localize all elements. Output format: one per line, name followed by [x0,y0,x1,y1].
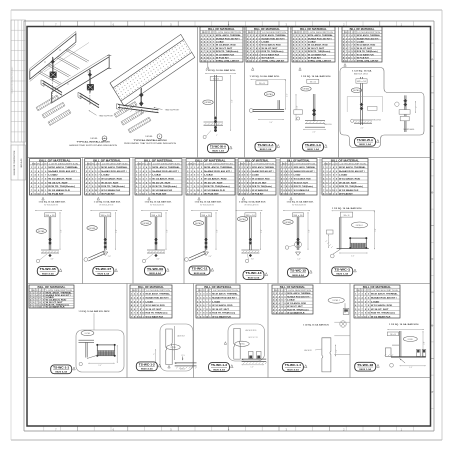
svg-text:McMAX ROD 400 KIT /: McMAX ROD 400 KIT / [262,37,286,40]
svg-text:W 1/2 ANCH. ROD: W 1/2 ANCH. ROD [212,304,233,307]
title bubble band2 cell1 [37,267,62,276]
isometric A trapeze channel 2 [78,92,99,107]
svg-text:2'-0″: 2'-0″ [361,127,364,129]
svg-text:LOAD: LOAD [48,174,58,177]
svg-text:1 1/2 SQ. 16 GA. BAR SCH.: 1 1/2 SQ. 16 GA. BAR SCH. [303,323,330,326]
svg-text:W 36 UT. NUT: W 36 UT. NUT [212,309,229,311]
svg-text:W 36 UT. NUT: W 36 UT. NUT [204,182,223,184]
svg-text:W FCB KIT: W FCB KIT [48,194,64,196]
isometric A ladder rungs [38,43,89,85]
title bubble band2 wide cell [332,267,357,276]
title bubble band3 cell1 [51,365,76,374]
svg-text:W 1/2 WASH FLR: W 1/2 WASH FLR [262,53,280,56]
svg-text:McMAX ROD 400 KIT /: McMAX ROD 400 KIT / [212,297,237,300]
svg-text:1 1/2 SQ. 16 GA. BAR SCH.: 1 1/2 SQ. 16 GA. BAR SCH. [206,69,237,72]
svg-text:DETAIL: DETAIL [285,221,292,224]
svg-text:McMAX ROD 400 KIT /: McMAX ROD 400 KIT / [308,37,332,40]
svg-text:TS-WC-1-4: TS-WC-1-4 [285,363,302,367]
zone scale top [44,21,414,27]
svg-text:W FCB KIT: W FCB KIT [357,57,370,59]
svg-text:McMAX ROD 400 KIT /: McMAX ROD 400 KIT / [287,296,310,299]
title bubble band2 cell4 [189,266,214,275]
svg-text:ISSUED FOR CONSTRUCTION REV 2: ISSUED FOR CONSTRUCTION REV 2 [12,67,14,94]
detail sketch band2 cell3 [141,197,172,262]
svg-text:DETAIL: DETAIL [90,137,98,140]
svg-text:RCB TR. THK(Retain): RCB TR. THK(Retain) [101,185,125,188]
svg-text:MCM. ANCH. THERMAL: MCM. ANCH. THERMAL [101,166,128,169]
svg-text:W FCB KIT: W FCB KIT [339,194,354,196]
svg-text:W 36 UT. NUT: W 36 UT. NUT [146,309,163,311]
svg-text:McMAX ROD 400 KIT /: McMAX ROD 400 KIT / [252,170,274,173]
svg-text:W FCB KIT: W FCB KIT [262,57,275,59]
svg-text:WELDING: WELDING [372,120,382,122]
detail sketch band3 cell1 [76,310,124,372]
svg-text:3'-6″: 3'-6″ [251,259,255,261]
svg-text:W 1/2 WASH FLR: W 1/2 WASH FLR [48,189,70,192]
svg-text:W 36 UT. NUT: W 36 UT. NUT [101,182,119,184]
svg-text:W 1/2 ANCH. ROD: W 1/2 ANCH. ROD [216,44,236,47]
svg-text:W 1/2 WASH FLR: W 1/2 WASH FLR [339,189,359,192]
svg-text:MCM. ANCH. THERMAL: MCM. ANCH. THERMAL [146,293,171,296]
svg-text:W 1/2 ANCH. ROD: W 1/2 ANCH. ROD [262,44,282,47]
svg-text:DETAIL: DETAIL [239,218,246,221]
svg-text:W 36 UT. NUT: W 36 UT. NUT [262,48,279,50]
svg-text:W6 x 16: W6 x 16 [259,83,265,85]
svg-text:4'-0″: 4'-0″ [297,105,299,109]
svg-text:W FCB KIT: W FCB KIT [308,57,322,59]
svg-text:LOAD: LOAD [252,174,259,177]
svg-text:MCM. ANCH. THERMAL: MCM. ANCH. THERMAL [287,292,311,295]
band2 cell divider 5 [277,158,279,284]
title bubble band1 cell1 [208,144,233,153]
svg-text:MCM. ANCH. THERMAL: MCM. ANCH. THERMAL [294,166,316,169]
svg-text:MCM. ANCH. THERMAL: MCM. ANCH. THERMAL [48,166,78,169]
svg-text:W 1/2 WASH FLR: W 1/2 WASH FLR [146,316,164,319]
svg-text:8620 1-04: 8620 1-04 [359,368,371,371]
svg-text:W 1/2 ANCH. ROD: W 1/2 ANCH. ROD [252,178,270,181]
svg-text:W 1/2 WASH FLR: W 1/2 WASH FLR [357,53,374,56]
svg-text:DETAIL: DETAIL [303,88,310,91]
svg-text:1 1/2 SQ. 16 GA. BAR SCH.: 1 1/2 SQ. 16 GA. BAR SCH. [145,201,173,204]
svg-text:8620 1-04: 8620 1-04 [212,150,224,153]
svg-text:1 1/2 SQ. 16 GA. BAR SCH.: 1 1/2 SQ. 16 GA. BAR SCH. [195,201,223,204]
svg-text:1 1/2 SQ. 16 GA. BAR SCH.: 1 1/2 SQ. 16 GA. BAR SCH. [287,201,315,204]
svg-text:2'-0″: 2'-0″ [336,349,338,352]
svg-text:McMAX ROD 400 KIT /: McMAX ROD 400 KIT / [204,170,232,173]
svg-text:W 36 UT. NUT: W 36 UT. NUT [371,309,389,311]
svg-text:5'-0″: 5'-0″ [167,229,169,233]
svg-text:MK PC QTY LGTH DESCRIPTION: MK PC QTY LGTH DESCRIPTION [202,32,242,34]
BOM table band2-6 [280,159,317,196]
svg-text:TS-WC-05: TS-WC-05 [40,267,57,271]
svg-text:1 1/2 SQ. 16 GA. BAR SCH.: 1 1/2 SQ. 16 GA. BAR SCH. [239,201,267,204]
svg-text:3'-6″: 3'-6″ [50,259,54,261]
detail sketch band2 cell4 [185,197,222,261]
svg-text:DETAIL: DETAIL [38,230,45,233]
detail sketch band1 cell4 [340,64,424,148]
svg-text:DETAIL: DETAIL [266,93,273,96]
svg-text:DETAIL: DETAIL [195,222,202,225]
svg-text:8620 1-04: 8620 1-04 [336,273,348,276]
svg-text:RCB TR. THK(Retain): RCB TR. THK(Retain) [252,185,272,188]
svg-text:1 1/2 SQ. 16 GA. BAR SCH.: 1 1/2 SQ. 16 GA. BAR SCH. [332,207,363,210]
svg-text:McMAX ROD 400 KIT /: McMAX ROD 400 KIT / [146,297,170,300]
svg-text:W 1/2 ANCH. ROD: W 1/2 ANCH. ROD [146,304,166,307]
detail sketch band3 cell4 [303,297,350,372]
svg-text:W6 x 16: W6 x 16 [310,81,316,83]
svg-text:TS-WC-15: TS-WC-15 [290,269,307,273]
svg-text:W FCB KIT: W FCB KIT [152,194,167,196]
title bubble band2 cell2 [93,267,118,276]
svg-text:ANCHOR: ANCHOR [304,349,312,352]
svg-text:TS-WC-09: TS-WC-09 [147,267,164,271]
isometric A ladder tray rails [30,31,112,103]
BOM table band2-1 [30,159,81,196]
svg-text:McMAX ROD 400 KIT /: McMAX ROD 400 KIT / [152,170,179,173]
svg-text:McMAX ROD 400 KIT /: McMAX ROD 400 KIT / [371,297,397,300]
svg-text:W 36 UT. NUT: W 36 UT. NUT [252,182,267,184]
svg-text:8620 4-04: 8620 4-04 [248,276,260,279]
isometric B hanger rod [139,88,143,116]
svg-text:RCB TR. THK(Retain): RCB TR. THK(Retain) [287,308,309,311]
svg-text:8620 1-04: 8620 1-04 [307,148,319,151]
svg-text:MK PC QTY LGTH DESCRIPTION: MK PC QTY LGTH DESCRIPTION [137,164,180,166]
title bubble band2 cell3 [145,266,170,275]
svg-text:W 36 UT. NUT: W 36 UT. NUT [357,48,373,50]
svg-text:RCB TR. THK(Retain): RCB TR. THK(Retain) [339,185,363,188]
svg-text:MCM. ANCH. THERMAL: MCM. ANCH. THERMAL [371,293,398,296]
svg-text:DETAIL: DETAIL [145,135,153,138]
band2 cell divider 6 [319,158,321,284]
svg-text:RCB TR. THK(Retain): RCB TR. THK(Retain) [152,185,177,188]
svg-text:McMAX ROD 400 KIT /: McMAX ROD 400 KIT / [339,170,365,173]
BOM table band2-3 [135,159,182,196]
svg-text:8620 4-04: 8620 4-04 [287,368,299,371]
detail sketch band2 wide cell [325,207,377,258]
band2 cell divider 4 [235,158,237,284]
svg-text:W6 x 16: W6 x 16 [357,81,366,83]
svg-text:TS-WC-4-A: TS-WC-4-A [305,143,321,147]
svg-text:TS-WC-18: TS-WC-18 [357,363,374,367]
svg-text:5'-0″: 5'-0″ [217,229,219,233]
svg-text:TS-WC-1: TS-WC-1 [334,268,351,272]
svg-text:W 36 UT. NUT: W 36 UT. NUT [216,48,233,50]
detail sketch band3 cell5 [385,323,426,369]
detail sketch band2 cell1 [35,197,66,262]
detail sketch band2 cell6 [283,197,314,260]
svg-text:TYPICAL INSTALLATION: TYPICAL INSTALLATION [77,141,111,144]
svg-text:W 1/2 ANCH. ROD: W 1/2 ANCH. ROD [339,178,361,181]
svg-text:W 1/2 ANCH. ROD: W 1/2 ANCH. ROD [294,178,311,181]
svg-text:5'-0″: 5'-0″ [61,229,63,233]
zone scale bottom [44,426,414,431]
isometric B insulation strips [114,102,151,134]
svg-text:LOAD: LOAD [287,299,295,302]
svg-text:LOAD: LOAD [339,174,348,177]
band1 cell divider 1 [197,27,199,158]
BOM table band2-5 [238,159,276,196]
svg-text:DETAIL: DETAIL [205,101,212,104]
svg-text:TS-WC-25-A: TS-WC-25-A [357,138,373,142]
svg-text:TS-WC-1-3: TS-WC-1-3 [211,363,228,367]
svg-text:5'-0″: 5'-0″ [231,99,233,103]
svg-text:MCM. ANCH. THERMAL: MCM. ANCH. THERMAL [262,34,287,37]
svg-text:W6 x 16: W6 x 16 [152,215,161,217]
isometric B perforated tray sheet [110,34,195,106]
svg-text:2'-0″: 2'-0″ [312,132,316,134]
detail sketch band2 cell5 [235,197,266,262]
svg-text:W 36 UT. NUT: W 36 UT. NUT [48,182,68,184]
svg-text:DETAIL: DETAIL [85,332,91,335]
band1 cell divider 3 [290,27,292,158]
svg-text:MCM. ANCH. THERMAL: MCM. ANCH. THERMAL [339,166,366,169]
svg-text:1 1/2 SQ. 16 GA. BAR SCH.: 1 1/2 SQ. 16 GA. BAR SCH. [94,201,122,204]
svg-text:W 36 UT. NUT: W 36 UT. NUT [152,182,171,184]
svg-text:TS-WC-11: TS-WC-11 [192,267,209,271]
svg-text:MK PC QTY LGTH DESCRIPTION: MK PC QTY LGTH DESCRIPTION [324,164,366,166]
svg-text:TS-WC-05-A: TS-WC-05-A [210,145,226,149]
svg-text:LOAD: LOAD [216,41,224,44]
svg-text:W FCB KIT: W FCB KIT [101,194,115,196]
svg-text:W6X16: W6X16 [180,369,185,371]
svg-text:MK PC QTY LGTH DESCRIPTION: MK PC QTY LGTH DESCRIPTION [248,32,287,34]
svg-text:TS-WC-13: TS-WC-13 [246,271,263,275]
svg-text:W6 x 16: W6 x 16 [294,215,303,217]
svg-text:W 1/2 WASH FLR: W 1/2 WASH FLR [308,53,327,56]
svg-text:2'-6″: 2'-6″ [286,93,288,97]
svg-text:McMAX ROD 400 KIT /: McMAX ROD 400 KIT / [48,170,77,173]
svg-text:LOAD: LOAD [294,174,301,177]
band divider line 3 [27,377,431,379]
svg-text:5'-0″: 5'-0″ [98,365,102,367]
svg-text:RCB TR. THK(Retain): RCB TR. THK(Retain) [212,312,235,315]
svg-text:5'-0″: 5'-0″ [351,256,355,258]
detail marker B [145,134,162,139]
title bubble band3 cell3 [209,363,234,372]
detail sketch band1 cell3 [294,68,333,134]
band divider line 2 [27,283,431,285]
title bubble band3 cell4 [282,363,307,372]
band1 cell divider 2 [244,27,246,158]
svg-text:W 36 UT. NUT: W 36 UT. NUT [287,306,303,308]
svg-text:LOAD: LOAD [152,174,161,177]
title bubble band3 cell5 [355,362,380,371]
svg-text:W 1/2 ANCH. ROD: W 1/2 ANCH. ROD [204,178,227,181]
caption B [124,139,177,145]
BOM table band3-2 [130,285,172,319]
isometric A hanger rod 1 [50,57,57,101]
svg-text:8620 4-04: 8620 4-04 [98,272,110,275]
svg-text:8620 4-04: 8620 4-04 [149,272,161,275]
svg-text:8620 4-04: 8620 4-04 [55,371,67,374]
svg-text:STRNL CHNL LNR KIT: STRNL CHNL LNR KIT [357,61,379,63]
svg-text:W 1/2 WASH FLR: W 1/2 WASH FLR [212,316,231,319]
svg-text:DETAIL: DETAIL [89,227,96,230]
svg-text:TS-WC-07: TS-WC-07 [95,267,112,271]
svg-text:McMAX ROD 400 KIT /: McMAX ROD 400 KIT / [101,170,127,173]
svg-text:2'-0″: 2'-0″ [108,256,112,258]
svg-text:W6 x 16: W6 x 16 [246,215,255,217]
svg-text:8620 4-04: 8620 4-04 [141,368,153,371]
svg-text:5'-0″: 5'-0″ [269,122,273,124]
svg-text:WELDING: WELDING [324,124,332,126]
isometric A insulation strips [36,95,71,126]
svg-text:W FCB KIT: W FCB KIT [216,57,230,59]
svg-text:W FCB KIT: W FCB KIT [294,194,306,196]
svg-text:MK PC QTY LGTH DESCRIPTION: MK PC QTY LGTH DESCRIPTION [344,32,381,34]
svg-text:W 1/2 WASH FLR: W 1/2 WASH FLR [294,189,310,192]
svg-text:W 1/2 ANCH. ROD: W 1/2 ANCH. ROD [357,44,376,47]
svg-text:MK PC QTY LGTH DESCRIPTION: MK PC QTY LGTH DESCRIPTION [32,164,79,166]
svg-text:TYPICAL INSTALLATION: TYPICAL INSTALLATION [134,139,168,142]
svg-text:MK PC QTY LGTH DESCRIPTION: MK PC QTY LGTH DESCRIPTION [132,290,171,292]
svg-text:W 1/2 WASH FLR: W 1/2 WASH FLR [46,306,65,309]
svg-text:W FCB KIT: W FCB KIT [252,194,264,196]
svg-text:W 36 UT. NUT: W 36 UT. NUT [308,48,325,50]
band3 cell divider 1 [126,284,128,378]
isometric A tray support label [89,110,115,117]
svg-text:LADDER TRAY SUPPORT AND INSULA: LADDER TRAY SUPPORT AND INSULATION [69,144,118,147]
svg-text:W FCB KIT: W FCB KIT [204,194,220,196]
svg-text:8620-E-401: 8620-E-401 [20,159,23,168]
band2 cell divider 1 [82,158,84,284]
svg-text:RCB TR. THK(Retain): RCB TR. THK(Retain) [294,185,313,188]
svg-text:1 1/2 SQ. 16 GA. BAR SCH.: 1 1/2 SQ. 16 GA. BAR SCH. [39,201,67,204]
svg-text:McMAX ROD 400 KIT /: McMAX ROD 400 KIT / [216,37,240,40]
band3 cell divider 4 [349,284,351,378]
svg-text:McMAX ROD 400 KIT /: McMAX ROD 400 KIT / [357,37,380,40]
svg-text:W 1/2 WASH FLR: W 1/2 WASH FLR [216,53,235,56]
detail sketch band2 cell2 [84,197,121,261]
band3 cell divider 2 [193,284,195,378]
svg-text:RCB TR. THK(Retain): RCB TR. THK(Retain) [357,50,378,53]
BOM table band2-2 [85,159,130,196]
svg-text:RCB TR. THK(Retain): RCB TR. THK(Retain) [308,50,331,53]
svg-text:RCB TR. THK(Retain): RCB TR. THK(Retain) [204,185,230,188]
svg-text:LOAD: LOAD [371,300,380,303]
BOM table band1-3 [292,27,335,63]
svg-text:8620 4-04: 8620 4-04 [194,272,206,275]
svg-text:ISSUED FOR CONSTRUCTION: ISSUED FOR CONSTRUCTION [14,150,16,175]
detail sketch band3 cell3 [224,324,267,369]
caption A [69,141,118,147]
svg-text:8620 4-04: 8620 4-04 [213,368,225,371]
drawing frame [27,27,431,427]
svg-text:1 1/2 SQ. 16 GA. BAR SCH. DECK: 1 1/2 SQ. 16 GA. BAR SCH. DECK [79,310,111,313]
isometric A hanger rod 2 [87,69,94,105]
svg-text:MCM. ANCH. THERMAL: MCM. ANCH. THERMAL [152,166,180,169]
isometric B tray support label [154,107,181,111]
svg-text:MCM. ANCH. THERMAL: MCM. ANCH. THERMAL [357,34,381,37]
svg-text:TRAY SUPPORT: TRAY SUPPORT [99,114,114,117]
svg-text:LOAD: LOAD [204,174,213,177]
svg-text:MK PC QTY LGTH DESCRIPTION: MK PC QTY LGTH DESCRIPTION [274,290,312,292]
svg-text:3'-6″: 3'-6″ [156,259,160,261]
svg-text:TS-WC-2-A: TS-WC-2-A [258,143,274,147]
svg-text:MCM. ANCH. THERMAL: MCM. ANCH. THERMAL [216,34,242,37]
svg-text:W6X9 A.B.: W6X9 A.B. [404,128,416,131]
svg-text:5'-0″: 5'-0″ [409,367,413,369]
svg-text:8620 4-04: 8620 4-04 [292,274,304,277]
svg-text:W 1/2 WASH FLR: W 1/2 WASH FLR [101,189,120,192]
title bubble band1 cell3 [303,142,328,151]
svg-text:W 1/2 ANCH. ROD: W 1/2 ANCH. ROD [101,178,122,181]
svg-text:W 1/2 ANCH. ROD: W 1/2 ANCH. ROD [48,178,72,181]
svg-text:STRNL CHNL LNR KIT: STRNL CHNL LNR KIT [216,61,240,63]
svg-text:PERFORATED TRAY SUPPORT AND IN: PERFORATED TRAY SUPPORT AND INSULATION [124,142,177,145]
band2 cell divider 2 [132,158,134,284]
svg-text:8620 1-04: 8620 1-04 [359,143,371,146]
svg-text:LOAD: LOAD [308,41,316,44]
svg-text:W6 x 16: W6 x 16 [344,215,350,217]
svg-text:W 1/2 ANCH. ROD: W 1/2 ANCH. ROD [371,304,393,307]
svg-text:1'-0″: 1'-0″ [297,259,301,261]
svg-text:8620 1-04: 8620 1-04 [260,148,272,151]
BOM table band3-4 [272,285,313,315]
svg-text:1 1/2 SQ. 16 GA. BAR SCH.: 1 1/2 SQ. 16 GA. BAR SCH. [389,323,420,326]
svg-text:RCB TR. THK(Retain): RCB TR. THK(Retain) [48,185,75,188]
svg-text:MK PC QTY LGTH DESCRIPTION: MK PC QTY LGTH DESCRIPTION [240,164,275,166]
svg-text:MCM. ANCH. THERMAL: MCM. ANCH. THERMAL [308,34,334,37]
svg-text:MCM. ANCH. THERMAL: MCM. ANCH. THERMAL [204,166,233,169]
svg-text:W6 x 16: W6 x 16 [101,215,110,217]
svg-text:W 1/2 WASH FLR: W 1/2 WASH FLR [204,189,225,192]
svg-text:STRNL CHNL LNR KIT: STRNL CHNL LNR KIT [308,61,332,63]
BOM table band3-1 [29,285,74,309]
svg-text:DETAIL 1: DETAIL 1 [356,224,364,227]
zone scale right [431,43,435,408]
svg-text:W 1/2 WASH FLR: W 1/2 WASH FLR [287,312,305,315]
svg-text:W 1/2 WASH FLR: W 1/2 WASH FLR [152,189,172,192]
svg-text:5'-0″: 5'-0″ [261,229,263,233]
BOM table band1-2 [246,27,288,63]
title bubble band3 cell2 [136,362,161,371]
svg-text:MCM. ANCH. THERMAL: MCM. ANCH. THERMAL [212,293,238,296]
svg-text:LOAD: LOAD [101,174,110,177]
BOM table band3-3 [196,285,240,319]
detail sketch band1 cell1 [203,62,236,139]
svg-text:5'-0″: 5'-0″ [116,229,118,233]
svg-text:DETAIL: DETAIL [353,89,360,92]
svg-text:STRNL CHNL LNR KIT: STRNL CHNL LNR KIT [262,61,285,63]
isometric A trapeze channel 1 [41,80,62,95]
svg-text:2'-0″: 2'-0″ [208,256,212,258]
svg-text:RCB TR. THK(Retain): RCB TR. THK(Retain) [216,50,239,53]
svg-text:1 1/2 SQ. 16 GA. BAR SCH.: 1 1/2 SQ. 16 GA. BAR SCH. [250,75,281,78]
svg-text:W 36 UT. NUT: W 36 UT. NUT [339,182,357,184]
detail marker A [90,136,107,141]
BOM table band2-7 [322,159,368,196]
detail sketch band1 cell2 [249,68,288,124]
svg-text:1 1/2 SQ. 16 GA. BAR SCH.: 1 1/2 SQ. 16 GA. BAR SCH. [301,75,332,78]
svg-text:MCM. ANCH. THERMAL: MCM. ANCH. THERMAL [252,166,275,169]
svg-text:5'-0″: 5'-0″ [375,228,377,232]
svg-text:8620 4-04: 8620 4-04 [42,272,54,275]
revision block [11,20,26,180]
band divider line 1 [27,157,431,159]
BOM table band1-1 [200,27,243,63]
svg-text:DETAIL: DETAIL [143,222,150,225]
svg-text:MK PC QTY LGTH DESCRIPTION: MK PC QTY LGTH DESCRIPTION [188,164,233,166]
svg-text:W 1/2 ANCH. ROD: W 1/2 ANCH. ROD [152,178,174,181]
svg-text:W6 x 16: W6 x 16 [390,334,396,336]
svg-text:W 1/2 WASH FLR: W 1/2 WASH FLR [371,316,391,319]
svg-text:W 1/2 WASH FLR: W 1/2 WASH FLR [252,189,268,192]
svg-text:MK PC QTY LGTH DESCRIPTION: MK PC QTY LGTH DESCRIPTION [282,164,316,166]
svg-text:TRAY SUPPORT: TRAY SUPPORT [165,109,180,112]
svg-text:W6 x 16: W6 x 16 [202,215,211,217]
svg-text:W 1/2 ANCH. ROD: W 1/2 ANCH. ROD [287,302,306,305]
